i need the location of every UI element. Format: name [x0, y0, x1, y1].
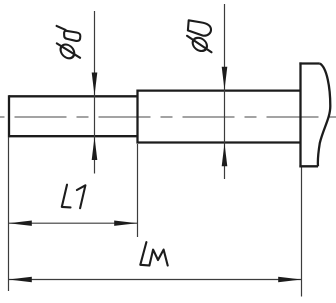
centerline	[0, 116, 336, 118]
Lm right arrow	[278, 277, 301, 282]
Lm left arrow	[9, 277, 32, 282]
arrow up to bottom of small shaft	[92, 137, 98, 160]
arrow up to bottom of large shaft	[222, 143, 228, 166]
Lm text	[140, 242, 167, 265]
L1 left arrow	[9, 221, 32, 226]
d bowl (rotated)	[64, 31, 80, 41]
d stem (rotated)	[57, 26, 66, 30]
shaft large section	[138, 90, 301, 144]
phi of D	[191, 38, 208, 51]
arrow down to top of large shaft	[222, 67, 228, 90]
arrow down to top of small shaft	[92, 73, 98, 96]
dim line D vertical	[224, 4, 226, 179]
label phi-D rotated	[187, 20, 212, 52]
extension line right head	[301, 168, 303, 297]
phi of d	[59, 45, 76, 59]
D shape (rotated)	[188, 20, 211, 35]
label phi-d rotated	[57, 26, 81, 58]
L1 text	[62, 185, 86, 209]
head knob	[299, 62, 330, 167]
shaft small section	[9, 95, 138, 137]
extension line middle step	[137, 144, 139, 237]
Lm dimension line	[9, 279, 302, 281]
extension line left	[8, 137, 10, 291]
L1 dimension line	[9, 222, 138, 224]
L1 right arrow	[114, 221, 137, 226]
dim line d vertical	[94, 11, 96, 174]
